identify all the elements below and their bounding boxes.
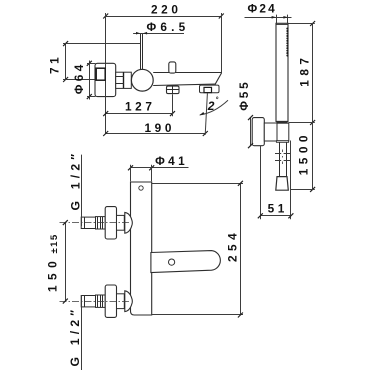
spout end chamfer (215, 73, 221, 84)
dimension 190 line (106, 133, 206, 135)
top supply pipe (81, 217, 95, 228)
valve body circle (131, 69, 153, 91)
top supply neck (117, 215, 125, 230)
dimension phi64 line (89, 61, 91, 100)
dimension phi64 tick top (87, 61, 92, 66)
svg-text:1500: 1500 (296, 131, 310, 175)
lever hole (169, 259, 175, 265)
connector step bottom (116, 83, 124, 85)
254 tick top (238, 181, 243, 186)
svg-text:Φ41: Φ41 (155, 154, 188, 168)
dimension 71 line (65, 44, 67, 80)
svg-text:°: ° (216, 95, 219, 104)
hose break line 1 (275, 153, 291, 155)
dimension 71 tick top (63, 41, 68, 46)
51 tick left (258, 213, 263, 218)
extension stub flange top (87, 63, 96, 65)
dimension 127 tick right (170, 111, 175, 116)
dimension 220 tick left (103, 14, 108, 19)
bottom supply neck (117, 294, 125, 309)
hose tube (280, 142, 287, 176)
handshower cap line (276, 24, 288, 26)
spout end nub (204, 87, 212, 92)
1500 tick bottom (310, 187, 315, 192)
connector divider (123, 72, 125, 88)
dimension 190 tick left (103, 131, 108, 136)
wall flange (side view) (95, 63, 116, 96)
hose center dash-dot (282, 150, 284, 165)
2deg arc arrow (199, 112, 205, 115)
handshower bottom collar (276, 122, 288, 123)
dimension 190 tick right (203, 131, 208, 136)
187 extension top (288, 23, 314, 25)
set screw square (96, 68, 105, 80)
hose shoulder (276, 141, 288, 143)
svg-text:150: 150 (46, 256, 60, 292)
phi24 extension stubs (277, 15, 288, 24)
svg-text:2: 2 (207, 99, 215, 113)
51 tick right (288, 213, 293, 218)
extension line valve axis (63, 79, 131, 81)
dimension 71 tick bottom (63, 77, 68, 82)
aerator center line (172, 86, 174, 94)
hose end nut (276, 177, 289, 191)
phi6.5 arrow right (143, 32, 147, 35)
2deg arc (200, 100, 228, 115)
bottom supply threads (96, 295, 106, 307)
diverter knob (169, 62, 176, 73)
extension line handle top (63, 43, 140, 45)
phi41 tick right (149, 165, 154, 170)
dimension 254 line (240, 183, 242, 315)
1500 extension bottom (291, 189, 315, 191)
phi55 dim line (250, 118, 252, 146)
187 extension bottom (288, 122, 314, 124)
aerator mid line (167, 89, 180, 91)
top supply centerline (60, 222, 132, 224)
dimension 187 line (312, 24, 314, 123)
G half top extension line (81, 155, 83, 226)
svg-text:Φ64: Φ64 (72, 61, 86, 94)
spout end cap (200, 85, 220, 93)
svg-text:220: 220 (151, 3, 181, 17)
phi41 extension stubs (131, 165, 152, 182)
dimension 220 line (106, 16, 222, 18)
phi6.5 leader line (133, 33, 184, 35)
phi55 tick bottom (248, 143, 253, 148)
187 tick bottom (310, 120, 315, 125)
connector body (116, 72, 132, 88)
bottom supply centerline (60, 301, 132, 303)
phi55 tick top (248, 115, 253, 120)
svg-text:G 1/2″: G 1/2″ (68, 306, 82, 367)
svg-text:G 1/2″: G 1/2″ (68, 150, 82, 211)
dimension 127 tick left (103, 111, 108, 116)
bottom supply escutcheon (105, 285, 116, 317)
svg-text:127: 127 (125, 99, 155, 113)
handle rod (141, 33, 143, 70)
aerator leader line (172, 94, 174, 116)
svg-text:±15: ±15 (49, 233, 60, 253)
dimension 150 line (65, 223, 67, 302)
top supply dome (125, 212, 133, 233)
bottom supply pipe (81, 296, 95, 307)
254 tick bottom (238, 313, 243, 318)
lever handle front view (151, 251, 220, 273)
svg-text:Φ6.5: Φ6.5 (147, 20, 190, 34)
dimension 51 extension left (260, 146, 262, 220)
dimension 1500 line (312, 123, 314, 190)
connector step top (116, 76, 124, 78)
spout body top edge (153, 72, 221, 74)
150 tick top (63, 220, 68, 225)
phi41 dim line (130, 167, 188, 169)
svg-text:51: 51 (268, 201, 288, 215)
dimension phi64 tick bottom (87, 94, 92, 99)
spout underside (153, 84, 216, 85)
top supply pipe cap line (84, 217, 86, 228)
wall line over flange (105, 16, 107, 134)
svg-text:Φ55: Φ55 (237, 79, 251, 110)
hose break line 2 (275, 160, 291, 162)
holder arm (264, 123, 277, 141)
dimension 51 extension right (290, 141, 292, 220)
bottom supply pipe cap line (84, 296, 86, 307)
aerator (167, 86, 180, 94)
dimension 220 tick right (219, 14, 224, 19)
svg-text:190: 190 (145, 121, 175, 135)
G half bottom extension line (81, 296, 83, 371)
svg-text:Φ24: Φ24 (248, 2, 277, 16)
holder flange phi55 (252, 118, 264, 146)
phi24 arrow left (272, 16, 277, 19)
phi6.5 arrow left (136, 32, 140, 35)
dimension 127 line (106, 113, 173, 115)
dimension 254 extension bottom (152, 314, 243, 316)
extension stub flange bottom (87, 96, 96, 98)
phi41 tick left (128, 165, 133, 170)
dimension 51 line (260, 215, 291, 217)
handshower phi24 dim line (245, 17, 292, 19)
svg-text:187: 187 (297, 54, 311, 87)
spray dots (286, 28, 288, 57)
hose connector (277, 123, 289, 141)
150 tick bottom (63, 299, 68, 304)
wall extension line left (105, 13, 107, 134)
bottom supply dome (125, 291, 133, 312)
handshower cylinder (276, 23, 288, 121)
187 tick top (310, 21, 315, 26)
front view body (131, 182, 152, 315)
body screw hole (139, 186, 143, 190)
dimension 254 extension top (152, 183, 243, 185)
top supply escutcheon (105, 207, 116, 239)
top supply threads (96, 217, 106, 229)
spout end leader line 2deg (205, 93, 207, 135)
body right extension line (221, 13, 223, 73)
phi24 arrow right (283, 16, 288, 19)
svg-text:71: 71 (48, 54, 62, 74)
svg-text:254: 254 (225, 229, 239, 262)
